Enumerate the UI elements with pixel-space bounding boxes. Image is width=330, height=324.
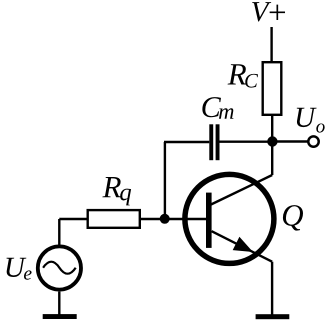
wire collector diagonal to transistor: [211, 175, 272, 205]
label RC: [228, 64, 258, 87]
wire V+ to RC: [270, 27, 272, 62]
ground under emitter: [256, 314, 290, 319]
capacitor Cm right plate: [216, 124, 220, 160]
resistor Rq: [88, 210, 140, 228]
node collector junction: [267, 136, 277, 146]
transistor Q base bar: [206, 193, 212, 248]
node base junction: [160, 214, 170, 224]
wire left vertical down to base node: [164, 142, 166, 219]
output terminal Uo: [308, 136, 318, 146]
source Ue: [38, 246, 81, 289]
wire Cm right plate to collector node: [220, 140, 273, 142]
label Q: [283, 205, 303, 231]
wire emitter down: [271, 262, 273, 315]
wire collector node to output: [272, 140, 308, 142]
wire Cm left plate to left corner: [164, 141, 209, 143]
resistor RC: [263, 62, 282, 115]
wire Ue to Rq: [59, 218, 86, 220]
wire Rq to base: [141, 218, 206, 220]
wire collector node down: [271, 142, 273, 176]
label Rq: [102, 177, 131, 205]
transistor Q circle: [185, 174, 274, 263]
node V+ label: [252, 2, 285, 21]
wire: [58, 219, 60, 245]
ground under Ue: [43, 314, 77, 319]
wire Ue to ground: [58, 292, 60, 315]
transistor Q emitter arrowhead: [233, 237, 253, 252]
capacitor Cm left plate: [209, 124, 213, 160]
wire RC to collector node: [271, 116, 273, 142]
label Cm: [202, 97, 233, 119]
label Uo: [297, 108, 325, 133]
label Ue: [6, 258, 31, 280]
transistor Q emitter line: [212, 231, 273, 262]
